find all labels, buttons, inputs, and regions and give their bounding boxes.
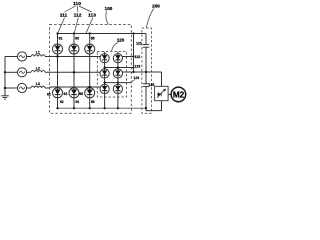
leader fan from 110 to 113 — [79, 6, 92, 12]
svg-text:64: 64 — [76, 100, 80, 104]
junction dot dc- cap — [145, 107, 147, 109]
diode A2 — [113, 54, 122, 63]
svg-text:121: 121 — [136, 42, 142, 46]
phase B wire: bus to source — [5, 71, 17, 73]
junction dot leg2 top — [73, 32, 75, 34]
svg-text:111: 111 — [60, 13, 68, 19]
right tap vertical — [133, 34, 135, 73]
svg-text:100: 100 — [105, 6, 113, 11]
motor M2 — [171, 87, 186, 102]
diode 65 — [85, 44, 95, 54]
junction dot BC col1 — [104, 82, 106, 84]
phase A wire: bus to source — [5, 56, 17, 58]
cell column 1 vertical — [104, 52, 106, 108]
diode A1 — [100, 54, 109, 63]
svg-text:65: 65 — [91, 36, 95, 40]
svg-text:62: 62 — [60, 100, 64, 104]
AC source V1 — [17, 52, 26, 61]
wire dc- to load box bottom — [146, 101, 162, 111]
phase B wire source to coil — [27, 71, 31, 73]
junction dot BC col2 — [117, 82, 119, 84]
dc link vertical top — [145, 34, 147, 45]
phase C wire source to coil — [27, 87, 31, 89]
svg-text:66: 66 — [91, 100, 95, 104]
inductor L1 — [31, 55, 45, 57]
tap row B to load — [123, 71, 162, 73]
svg-text:64: 64 — [64, 92, 68, 96]
dc link vertical bottom — [145, 86, 147, 108]
junction dot cell col1 bottom — [104, 107, 106, 109]
bus between rows B and C — [105, 82, 132, 84]
svg-text:112: 112 — [74, 13, 82, 19]
junction dot tap A — [132, 55, 134, 57]
capacitor C2 — [143, 83, 149, 85]
leader 124 to BC bus — [132, 80, 135, 83]
phase A wire source to coil — [27, 56, 31, 58]
junction dot tap B left — [132, 71, 134, 73]
junction dot phase C leg3 — [89, 86, 91, 88]
bottom DC bus — [58, 107, 147, 109]
cell column 2 vertical — [117, 52, 119, 108]
svg-text:M2: M2 — [173, 90, 185, 99]
junction dot AB col2 — [117, 66, 119, 68]
svg-text:L2: L2 — [36, 66, 40, 70]
diode 66 — [85, 88, 95, 98]
leader 112 to leg2 — [74, 18, 78, 34]
junction dot leg1 bottom — [56, 107, 58, 109]
leg 1 vertical — [57, 34, 59, 109]
junction dot phase A leg1 — [56, 55, 58, 57]
leg 3 vertical — [89, 34, 91, 109]
svg-text:L3: L3 — [36, 82, 40, 86]
leg 2 vertical — [73, 34, 75, 109]
diode 62 — [53, 88, 63, 98]
junction dot phase B leg2 — [73, 71, 75, 73]
inductor L3 — [31, 86, 45, 88]
diode C2 — [113, 84, 122, 93]
load box diode symbol — [158, 92, 161, 96]
leader 120 to cell box — [112, 43, 119, 52]
left neutral bus — [4, 57, 6, 96]
junction dot neutral row3 — [4, 87, 6, 89]
svg-text:125: 125 — [149, 83, 155, 87]
diode C1 — [100, 84, 109, 93]
capacitor C1 — [143, 44, 149, 46]
svg-text:123: 123 — [135, 64, 141, 68]
diode 61 — [53, 44, 63, 54]
wire load box to motor — [168, 94, 171, 96]
junction dot leg3 top — [89, 32, 91, 34]
phase C wire: bus to source — [5, 87, 17, 89]
top DC bus — [58, 33, 147, 35]
load box arrow — [157, 89, 165, 98]
svg-text:63: 63 — [75, 36, 79, 40]
junction dot AB col1 — [104, 66, 106, 68]
junction dot neutral row2 — [4, 71, 6, 73]
phase C wire into bridge — [45, 87, 100, 88]
diode B2 — [113, 69, 122, 78]
svg-text:62: 62 — [47, 93, 51, 97]
leader 113 to leg3 — [86, 18, 93, 34]
phase B wire into bridge — [45, 71, 100, 73]
leader fan from 110 to 111 — [65, 6, 76, 12]
svg-text:124: 124 — [134, 76, 140, 80]
svg-text:L1: L1 — [36, 51, 40, 55]
AC source V2 — [17, 68, 26, 77]
tap row A to right bus — [123, 56, 134, 58]
converter dashed box 100 — [50, 25, 132, 114]
junction dot AB right — [132, 66, 134, 68]
junction dot leg2 bottom — [73, 107, 75, 109]
leader fan from 110 to 112 — [76, 6, 79, 12]
dc-link dashed box 200 — [142, 28, 152, 113]
svg-text:61: 61 — [59, 36, 63, 40]
junction dot leg1 top — [56, 32, 58, 34]
load box (chopper) — [155, 86, 169, 100]
AC source V3 — [17, 83, 26, 92]
svg-text:120: 120 — [117, 38, 125, 43]
diode 64 — [69, 88, 79, 98]
junction dot tap B cap — [145, 71, 147, 73]
bus between rows A and B — [105, 67, 134, 69]
diode B1 — [100, 69, 109, 78]
svg-text:122: 122 — [135, 55, 141, 59]
dc link vertical middle — [145, 47, 147, 84]
junction dot cell col2 bottom — [117, 107, 119, 109]
svg-text:200: 200 — [152, 4, 160, 9]
phase A wire into bridge — [45, 56, 100, 58]
junction dot leg3 bottom — [89, 107, 91, 109]
leader 111 to leg1 — [58, 18, 65, 34]
svg-text:66: 66 — [79, 92, 83, 96]
ground — [1, 95, 9, 97]
leader 100 to box — [106, 11, 108, 24]
svg-text:113: 113 — [88, 13, 96, 19]
diode 63 — [69, 44, 79, 54]
wire tap B down to load box top — [161, 72, 163, 86]
inductor L2 — [31, 71, 45, 73]
leader 200 to dc-link box — [146, 9, 154, 28]
junction dot tap vertical top — [132, 32, 134, 34]
bridge cell dashed box 120 — [97, 52, 126, 98]
